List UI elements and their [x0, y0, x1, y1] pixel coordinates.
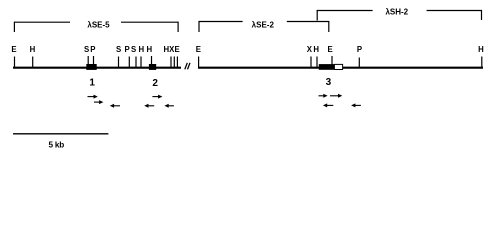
probe 1 arrow left [110, 104, 120, 108]
svg-text:2: 2 [152, 78, 158, 89]
svg-text:λSE-2: λSE-2 [252, 20, 275, 29]
bracket lambda SE-2 [199, 21, 330, 32]
svg-text:E: E [327, 45, 332, 54]
probe 3 arrow left b [351, 103, 361, 107]
break symbol // [185, 63, 190, 70]
svg-text:H: H [478, 45, 484, 54]
site ticks segment 2 [199, 56, 482, 68]
bracket lambda SE-5 [14, 22, 179, 32]
svg-text:S: S [84, 45, 89, 54]
scale bar [13, 133, 108, 135]
svg-text:λSH-2: λSH-2 [385, 8, 408, 17]
probe 3 arrow right b [330, 94, 342, 98]
exon box 2 (filled) [149, 64, 156, 70]
svg-text:P: P [357, 45, 362, 54]
exon box 3 open part [334, 64, 342, 69]
probe 2 arrow left a [144, 104, 154, 108]
svg-text:5 kb: 5 kb [49, 141, 65, 150]
svg-text:H: H [146, 45, 152, 54]
svg-text:E: E [174, 45, 179, 54]
svg-text:1: 1 [89, 78, 95, 89]
svg-text:H: H [138, 45, 144, 54]
svg-text:E: E [196, 45, 201, 54]
svg-text:X: X [307, 45, 313, 54]
svg-text:E: E [11, 45, 16, 54]
svg-text:S: S [116, 45, 121, 54]
exon box 3 (filled) [319, 64, 334, 70]
svg-text:H: H [30, 45, 36, 54]
svg-text:S: S [131, 45, 136, 54]
probe 3 arrow left a [323, 103, 333, 107]
svg-text:P: P [90, 45, 95, 54]
map line 2 [198, 67, 483, 69]
map line 1 [13, 67, 181, 69]
probe 2 arrow left b [164, 104, 174, 108]
svg-text:3: 3 [326, 77, 332, 88]
probe 1 arrow right b [94, 100, 103, 104]
exon box 1 (filled) [86, 64, 96, 70]
site ticks segment 1 [15, 56, 178, 68]
svg-text:P: P [124, 45, 129, 54]
probe 1 arrow right a [88, 95, 98, 99]
probe 2 arrow right [152, 95, 162, 99]
svg-text:λSE-5: λSE-5 [87, 20, 110, 29]
probe 3 arrow right a [319, 94, 328, 98]
svg-text:H: H [313, 45, 319, 54]
bracket lambda SH-2 [317, 10, 482, 21]
